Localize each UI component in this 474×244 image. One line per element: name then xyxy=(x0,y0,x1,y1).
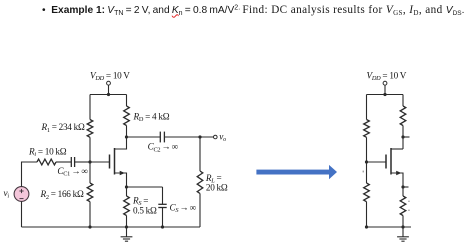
wire VDD stub (left) xyxy=(108,85,110,94)
transistor M1' source lead xyxy=(391,173,403,187)
capacitor CS plate 2 xyxy=(158,207,166,209)
transistor M1 channel bar xyxy=(114,148,116,175)
wire drain node to CC2 xyxy=(127,136,161,138)
wire RD to drain (right) xyxy=(402,126,404,150)
wire left-rail above R1 xyxy=(89,95,91,120)
svg-text:RD = 4 kΩ: RD = 4 kΩ xyxy=(133,111,170,123)
wire top rail (right) xyxy=(367,94,404,96)
transistor M1' source arrow xyxy=(396,171,401,175)
node source junction (right) xyxy=(401,185,404,188)
wire right-rail above RD xyxy=(126,95,128,107)
terminal VDD (right) xyxy=(383,81,387,85)
wire left-rail R2 to bottom (right) xyxy=(366,202,368,227)
svg-text:vi: vi xyxy=(4,188,10,200)
ground symbol (right) xyxy=(397,227,409,241)
wire left-rail above R1 (right) xyxy=(366,95,368,120)
resistor R2 xyxy=(87,183,93,202)
resistor R1 (right, unlabeled) xyxy=(364,120,370,138)
wire source node to CS branch xyxy=(127,186,163,188)
wire RS to ground rail xyxy=(126,216,128,228)
capacitor CC1 plate 2 xyxy=(74,157,76,167)
node VDD rail junction (left) xyxy=(107,93,110,96)
svg-text:CC2 → ∞: CC2 → ∞ xyxy=(148,142,179,154)
node bottom rail ground junction (left) xyxy=(125,225,128,228)
label vi plus sign xyxy=(19,189,23,193)
wire RL lower xyxy=(199,194,201,228)
transistor M1 gate bar xyxy=(109,155,111,169)
resistor RS xyxy=(124,196,130,216)
wire gate node to gate bar (right) xyxy=(367,161,387,163)
transistor M1' gate bar xyxy=(385,155,387,169)
wire left-rail R1 to gate (right) xyxy=(366,137,368,183)
wire bottom rail (right) xyxy=(367,226,412,228)
resistor R1 xyxy=(87,120,93,138)
svg-text:CC1 → ∞: CC1 → ∞ xyxy=(57,166,88,178)
wire drain stub remnant (right) xyxy=(403,136,410,138)
svg-text:20 kΩ: 20 kΩ xyxy=(206,183,228,193)
wire source node to RS (right) xyxy=(402,187,404,196)
node RL tee xyxy=(198,135,201,138)
transistor M1 source arrow xyxy=(120,171,125,175)
wire source node to RS xyxy=(126,187,128,196)
wire VDD stub (right) xyxy=(384,85,386,94)
wire vi bottom to ground rail xyxy=(21,201,23,227)
wire vi top to input line xyxy=(22,162,38,187)
wire gate node to gate bar xyxy=(90,161,110,163)
resistor RD xyxy=(124,106,130,126)
capacitor CC2 plate 1 xyxy=(159,132,161,143)
resistor RS (right, unlabeled) xyxy=(400,196,406,216)
svg-text:VDD = 10 V: VDD = 10 V xyxy=(367,70,407,82)
wire left-rail R2 to bottom xyxy=(89,202,91,227)
remnant speck right of RS (upper) xyxy=(408,201,410,202)
node gate junction (left) xyxy=(88,160,91,163)
wire top rail (left) xyxy=(90,94,127,96)
remnant speck near right gate xyxy=(363,171,364,173)
node drain junction (right) xyxy=(401,135,404,138)
headline bullet text xyxy=(42,4,464,16)
svg-text:R1 = 234 kΩ: R1 = 234 kΩ xyxy=(41,122,85,134)
label vi minus sign xyxy=(20,198,24,200)
wire RD to drain node xyxy=(126,126,128,138)
wire right-rail above RD (right) xyxy=(402,95,404,107)
node drain junction (left) xyxy=(125,135,128,138)
node bottom rail CS junction xyxy=(161,225,164,228)
resistor R2 (right, unlabeled) xyxy=(364,183,370,202)
resistor RD (right, unlabeled) xyxy=(400,106,406,126)
node bottom rail left junction (right) xyxy=(365,225,368,228)
svg-text:vo: vo xyxy=(219,132,226,144)
resistor RL xyxy=(197,171,203,194)
wire source stub remnant (right) xyxy=(403,186,409,188)
wire CC1 to gate node xyxy=(75,161,90,163)
remnant speck right of RS (lower) xyxy=(408,210,410,211)
blue transform arrow xyxy=(256,165,337,179)
wire CC2 to output terminal xyxy=(164,136,213,138)
svg-text:Ri = 10 kΩ: Ri = 10 kΩ xyxy=(28,146,67,158)
terminal vo xyxy=(214,135,218,139)
node VDD rail junction (right) xyxy=(383,93,386,96)
svg-text:CS → ∞: CS → ∞ xyxy=(170,202,197,214)
node bottom rail ground junction (right) xyxy=(401,225,404,228)
wire CS branch lower xyxy=(162,208,164,228)
svg-text:R2 = 166 kΩ: R2 = 166 kΩ xyxy=(40,189,84,201)
source vi circle xyxy=(14,187,29,202)
capacitor CC1 plate 1 xyxy=(70,157,72,167)
resistor Ri xyxy=(37,159,56,165)
node bottom rail R2 junction xyxy=(88,225,91,228)
transistor M1' drain lead xyxy=(391,148,403,150)
svg-text:0.5 kΩ: 0.5 kΩ xyxy=(133,205,157,215)
transistor M1' channel bar xyxy=(390,148,392,175)
wire RL upper xyxy=(199,137,201,171)
terminal VDD (left) xyxy=(107,81,111,85)
svg-text:VDD = 10 V: VDD = 10 V xyxy=(90,70,130,82)
ground symbol (left) xyxy=(121,227,133,241)
transistor M1 source lead xyxy=(115,173,127,187)
wire RS to ground rail (right) xyxy=(402,216,404,228)
wire Ri to CC1 xyxy=(56,161,71,163)
node gate junction (right) xyxy=(365,160,368,163)
capacitor CC2 plate 2 xyxy=(163,132,165,143)
wire CS branch upper xyxy=(162,187,164,204)
transistor M1 drain lead xyxy=(115,137,127,149)
node source junction (left) xyxy=(125,185,128,188)
wire left-rail R1 to gate node xyxy=(89,137,91,183)
wire bottom rail (left) xyxy=(22,226,201,228)
capacitor CS plate 1 xyxy=(158,203,166,205)
